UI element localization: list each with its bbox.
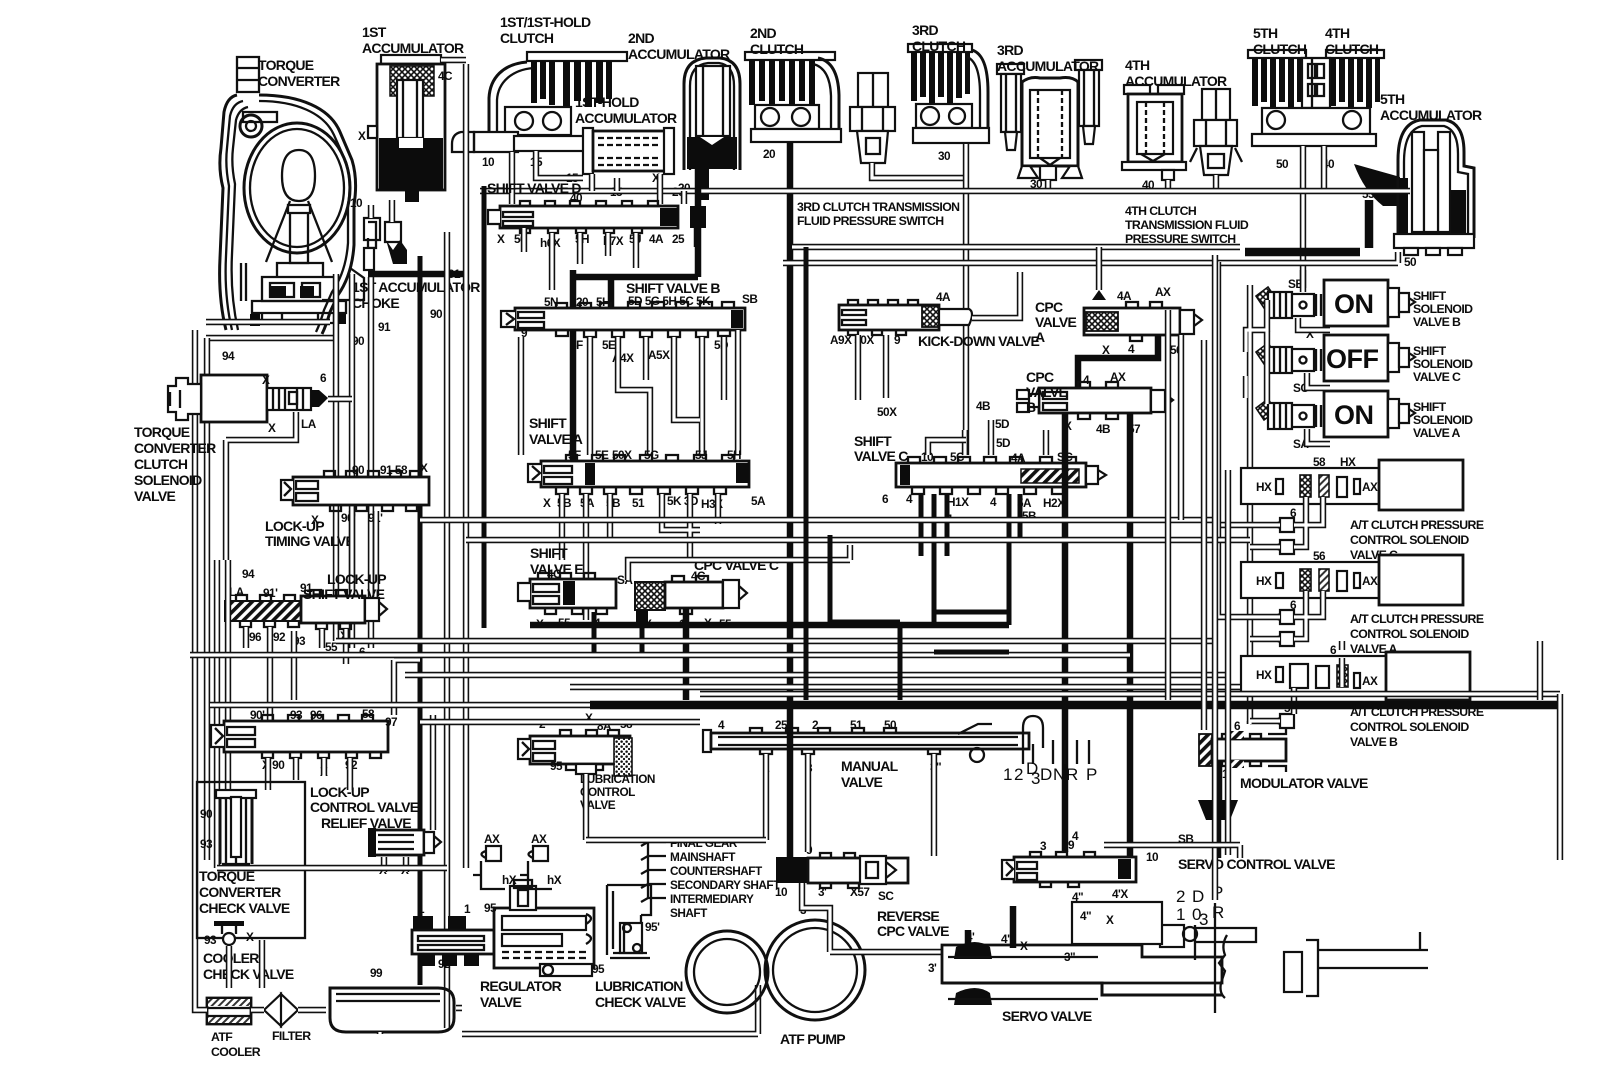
- a/t cpcsv B ports: [1276, 714, 1294, 728]
- svg-text:HX: HX: [1256, 668, 1272, 682]
- wire SB SC SA stems: [1298, 318, 1330, 444]
- wire lubrication control valve stem: [583, 774, 589, 840]
- wire 97 pipe: [394, 660, 420, 715]
- svg-text:CLUTCH: CLUTCH: [1325, 41, 1379, 57]
- wire LA elbow: [226, 412, 296, 560]
- svg-text:1ST/1ST-HOLD: 1ST/1ST-HOLD: [500, 14, 591, 30]
- svg-text:5E: 5E: [602, 338, 616, 352]
- atf cooler: [207, 998, 251, 1024]
- regulator valve: [412, 880, 594, 976]
- wire servo drops: [968, 906, 1013, 948]
- svg-text:5F: 5F: [570, 338, 583, 352]
- wire cpcsv C links: [1218, 497, 1323, 547]
- svg-text:AX: AX: [1110, 370, 1126, 384]
- svg-text:H1X: H1X: [947, 495, 969, 509]
- svg-text:50: 50: [1404, 255, 1417, 269]
- svg-text:96: 96: [310, 708, 323, 722]
- svg-text:CHECK VALVE: CHECK VALVE: [203, 966, 294, 982]
- svg-text:CONVERTER: CONVERTER: [134, 440, 216, 456]
- svg-text:ACCUMULATOR: ACCUMULATOR: [575, 110, 677, 126]
- svg-text:95: 95: [484, 901, 497, 915]
- svg-text:CLUTCH: CLUTCH: [912, 38, 966, 54]
- svg-text:6: 6: [882, 492, 889, 506]
- svg-text:50: 50: [884, 718, 897, 732]
- svg-text:CONVERTER: CONVERTER: [199, 884, 281, 900]
- svg-text:20: 20: [576, 295, 589, 309]
- svg-text:51: 51: [850, 718, 863, 732]
- svg-text:CHECK VALVE: CHECK VALVE: [199, 900, 290, 916]
- svg-text:MAINSHAFT: MAINSHAFT: [670, 850, 736, 864]
- wire control valve drops: [268, 758, 350, 790]
- wire cpc A arrow feed: [1096, 247, 1102, 290]
- svg-text:CONVERTER: CONVERTER: [258, 73, 340, 89]
- svg-text:10: 10: [350, 196, 363, 210]
- svg-text:SHIFT: SHIFT: [1413, 289, 1447, 303]
- shift valve A: [528, 455, 749, 494]
- svg-text:X: X: [246, 930, 254, 944]
- a/t cpcsv C ports: [1276, 518, 1294, 532]
- svg-text:50: 50: [1276, 157, 1289, 171]
- svg-text:99: 99: [370, 966, 383, 980]
- wire long horizontal y520: [420, 517, 1218, 523]
- wire cpc C stem thick: [683, 608, 690, 700]
- wire relief valve riser: [384, 715, 433, 872]
- svg-text:VALVE A: VALVE A: [529, 431, 583, 447]
- svg-text:REVERSE: REVERSE: [877, 908, 939, 924]
- frame box around check valve: [197, 782, 305, 938]
- svg-text:CONTROL SOLENOID: CONTROL SOLENOID: [1350, 627, 1469, 641]
- 3rd clutch pressure switch: [850, 73, 895, 163]
- svg-text:94: 94: [222, 349, 235, 363]
- svg-text:97: 97: [385, 715, 398, 729]
- svg-text:1: 1: [418, 902, 425, 916]
- svg-text:INTERMEDIARY: INTERMEDIARY: [670, 892, 754, 906]
- wire 4A elbow from valve D to kick-down: [694, 228, 701, 247]
- svg-text:MODULATOR VALVE: MODULATOR VALVE: [1240, 775, 1368, 791]
- svg-text:TIMING VALVE: TIMING VALVE: [265, 533, 354, 549]
- wire valve D port drops: [524, 228, 636, 290]
- svg-text:30: 30: [938, 149, 951, 163]
- wire y720: [420, 719, 700, 725]
- wire 2nd clutch thick extension: [787, 716, 794, 857]
- svg-text:5E: 5E: [595, 448, 609, 462]
- svg-text:OFF: OFF: [1326, 344, 1379, 374]
- svg-text:AX: AX: [531, 832, 547, 846]
- svg-text:ACCUMULATOR: ACCUMULATOR: [1380, 107, 1482, 123]
- a/t cpcsv A ports: [1276, 610, 1294, 624]
- 1st/1st-hold clutch: [452, 52, 627, 152]
- svg-text:SHIFT VALVE D: SHIFT VALVE D: [487, 180, 581, 196]
- wire long horizontal y687: [570, 684, 1240, 690]
- a/t clutch pressure control solenoid valve B: [1241, 652, 1470, 700]
- svg-text:4TH: 4TH: [1325, 25, 1350, 41]
- shift solenoid valve B assembly: [1256, 280, 1415, 326]
- svg-text:ACCUMULATOR: ACCUMULATOR: [997, 58, 1099, 74]
- svg-text:TORQUE: TORQUE: [258, 57, 314, 73]
- svg-text:3": 3": [1064, 950, 1075, 964]
- wire lubrication link: [586, 830, 808, 852]
- svg-text:4: 4: [1128, 342, 1135, 356]
- svg-text:AX: AX: [1362, 480, 1378, 494]
- svg-text:5H: 5H: [596, 295, 610, 309]
- wire 40 from 4th clutch: [1321, 146, 1327, 191]
- modulator valve: [1198, 728, 1286, 858]
- svg-text:X: X: [1020, 939, 1028, 953]
- svg-text:VALVE: VALVE: [480, 994, 521, 1010]
- svg-text:X: X: [358, 129, 366, 143]
- wire 4th accumulator stem: [1165, 180, 1171, 191]
- svg-text:CPC VALVE: CPC VALVE: [877, 923, 949, 939]
- svg-text:CPC: CPC: [1026, 369, 1054, 385]
- svg-text:20: 20: [763, 147, 776, 161]
- svg-text:5D: 5D: [996, 436, 1011, 450]
- svg-text:D: D: [1040, 765, 1052, 784]
- wire pipe x336 x352 from choke area down: [336, 274, 352, 648]
- svg-text:94: 94: [242, 567, 255, 581]
- wire long feed pipe y191: [480, 188, 1410, 194]
- svg-text:LOCK-UP: LOCK-UP: [310, 784, 369, 800]
- svg-text:2: 2: [1014, 765, 1023, 784]
- servo valve upper chamber: [1072, 902, 1162, 944]
- wire 1st accumulator top to x466: [441, 57, 466, 63]
- svg-text:LUBRICATION: LUBRICATION: [580, 772, 655, 786]
- svg-text:LUBRICATION: LUBRICATION: [595, 978, 683, 994]
- cpc valve B: [1017, 382, 1173, 419]
- svg-text:SHIFT: SHIFT: [1413, 344, 1447, 358]
- torque converter clutch solenoid valve: [168, 375, 328, 422]
- lubrication control valve: [518, 730, 632, 776]
- svg-text:VALVE B: VALVE B: [1413, 315, 1461, 329]
- svg-text:A5X: A5X: [648, 348, 670, 362]
- wire shift valve drops: [246, 627, 346, 720]
- svg-text:50X: 50X: [612, 448, 632, 462]
- shift solenoid valve C assembly: [1256, 335, 1415, 381]
- svg-text:TORQUE: TORQUE: [134, 424, 190, 440]
- svg-text:SHAFT: SHAFT: [670, 906, 708, 920]
- wire 50 from 5th clutch: [1300, 146, 1306, 292]
- svg-text:MANUAL: MANUAL: [841, 758, 899, 774]
- svg-text:6: 6: [1330, 643, 1337, 657]
- svg-text:1ST: 1ST: [362, 24, 387, 40]
- lock-up control valve: [211, 715, 388, 758]
- shift valve B: [501, 302, 745, 337]
- wire 57 thick: [1127, 413, 1134, 856]
- cooler check valve: [214, 921, 244, 945]
- svg-text:91': 91': [263, 586, 278, 600]
- 5th clutch: [1248, 50, 1306, 108]
- svg-text:10: 10: [482, 155, 495, 169]
- svg-text:10: 10: [775, 885, 788, 899]
- svg-text:CONTROL VALVE: CONTROL VALVE: [310, 799, 419, 815]
- svg-text:95: 95: [592, 962, 605, 976]
- svg-text:4: 4: [718, 718, 725, 732]
- svg-text:2ND: 2ND: [750, 25, 776, 41]
- wire pipe y247: [792, 244, 1240, 250]
- svg-text:LA: LA: [229, 585, 245, 599]
- wire thick x830 elbow: [830, 535, 900, 700]
- svg-text:PRESSURE SWITCH: PRESSURE SWITCH: [1125, 232, 1236, 246]
- svg-text:2ND: 2ND: [628, 30, 654, 46]
- svg-text:N: N: [1053, 765, 1065, 784]
- wire 15 acc port down: [592, 174, 617, 191]
- wire valve C top links: [965, 420, 1046, 455]
- wire long horizontal y648: [190, 652, 1130, 658]
- svg-text:6: 6: [1290, 506, 1297, 520]
- svg-text:91: 91: [378, 320, 391, 334]
- svg-text:R: R: [1212, 903, 1224, 922]
- svg-text:AX: AX: [1362, 674, 1378, 688]
- wire servo control valve feeds: [1104, 845, 1240, 858]
- wire thick x806: [804, 247, 809, 700]
- selector vertical lines: [1195, 903, 1215, 1013]
- svg-text:CONTROL SOLENOID: CONTROL SOLENOID: [1350, 533, 1469, 547]
- svg-text:6: 6: [1234, 719, 1241, 733]
- svg-text:3: 3: [1040, 839, 1047, 853]
- svg-text:1: 1: [464, 902, 471, 916]
- svg-text:CPC: CPC: [1035, 299, 1063, 315]
- svg-text:ACCUMULATOR: ACCUMULATOR: [1125, 73, 1227, 89]
- svg-text:4TH: 4TH: [1125, 57, 1150, 73]
- svg-text:TRANSMISSION FLUID: TRANSMISSION FLUID: [1125, 218, 1249, 232]
- svg-text:KICK-DOWN VALVE: KICK-DOWN VALVE: [918, 333, 1040, 349]
- 4th clutch pressure switch: [1190, 89, 1242, 175]
- svg-text:A/T CLUTCH PRESSURE: A/T CLUTCH PRESSURE: [1350, 612, 1484, 626]
- svg-text:5D: 5D: [995, 417, 1010, 431]
- wire left edge long pipes: [195, 330, 207, 940]
- svg-text:95': 95': [645, 920, 660, 934]
- svg-text:VALVE: VALVE: [1026, 384, 1067, 400]
- wire 3rd accumulator stem: [1045, 180, 1051, 191]
- servo control valve: [1002, 852, 1136, 887]
- relief valve: [368, 828, 441, 857]
- svg-text:ON: ON: [1334, 289, 1374, 319]
- svg-text:4C: 4C: [547, 567, 562, 581]
- svg-text:AX: AX: [1362, 574, 1378, 588]
- svg-text:5TH: 5TH: [1380, 91, 1405, 107]
- wire pipe x447: [444, 232, 450, 1028]
- wire 4 thick x1065: [1062, 413, 1069, 852]
- svg-text:93: 93: [204, 933, 217, 947]
- svg-text:2: 2: [812, 718, 819, 732]
- wire 15 drop: [536, 151, 583, 178]
- shift valve C: [896, 457, 1106, 494]
- svg-text:10: 10: [1146, 850, 1159, 864]
- wire timing valve drops: [352, 511, 376, 596]
- svg-text:3': 3': [928, 961, 937, 975]
- wire choke feeds: [371, 200, 392, 648]
- svg-text:CHECK VALVE: CHECK VALVE: [595, 994, 686, 1010]
- svg-text:P: P: [1086, 765, 1097, 784]
- svg-text:SHIFT: SHIFT: [530, 545, 568, 561]
- wire vertical x466 from 1st accumulator top: [463, 64, 469, 868]
- svg-text:A/T CLUTCH PRESSURE: A/T CLUTCH PRESSURE: [1350, 518, 1484, 532]
- svg-text:SHIFT: SHIFT: [1413, 400, 1447, 414]
- svg-text:5TH: 5TH: [1253, 25, 1278, 41]
- svg-text:5N: 5N: [544, 295, 558, 309]
- wire long horizontal y694: [700, 691, 1560, 697]
- svg-text:AX: AX: [484, 832, 500, 846]
- wire 56 pipe: [1178, 335, 1184, 470]
- svg-text:COOLER: COOLER: [211, 1045, 261, 1059]
- wire long horizontal y641: [336, 638, 1218, 644]
- kick-down valve: [839, 300, 972, 335]
- svg-text:91 58: 91 58: [380, 463, 408, 477]
- svg-text:FILTER: FILTER: [272, 1029, 311, 1043]
- svg-text:90: 90: [352, 463, 365, 477]
- 3rd accumulator: [997, 60, 1102, 180]
- svg-text:5H: 5H: [727, 448, 741, 462]
- wire thick bar y625: [530, 622, 1009, 629]
- svg-text:2: 2: [1176, 887, 1185, 906]
- svg-text:4B: 4B: [1096, 422, 1110, 436]
- svg-text:VALVE: VALVE: [841, 774, 882, 790]
- svg-text:SOLENOID: SOLENOID: [1413, 302, 1473, 316]
- svg-text:4C: 4C: [691, 569, 706, 583]
- svg-text:90: 90: [430, 307, 443, 321]
- svg-text:hX: hX: [502, 873, 517, 887]
- svg-text:1: 1: [1176, 905, 1185, 924]
- wire pan riser: [217, 868, 447, 988]
- svg-text:5G: 5G: [644, 448, 659, 462]
- svg-text:VALVE C: VALVE C: [854, 448, 908, 464]
- svg-text:SOLENOID: SOLENOID: [1413, 413, 1473, 427]
- lubrication check valve: [607, 885, 651, 958]
- wire shift solenoid feeds: [1218, 262, 1303, 724]
- svg-text:91: 91: [300, 581, 313, 595]
- svg-text:HX: HX: [1256, 574, 1272, 588]
- svg-text:SC: SC: [878, 889, 894, 903]
- svg-text:25: 25: [672, 232, 685, 246]
- svg-text:4'X: 4'X: [1112, 887, 1128, 901]
- svg-text:96: 96: [249, 630, 262, 644]
- svg-text:5D 5G 5H 5C 5K: 5D 5G 5H 5C 5K: [628, 294, 711, 308]
- 2nd clutch: [745, 52, 841, 142]
- svg-text:5J: 5J: [695, 448, 707, 462]
- wire kick-down drops: [858, 335, 886, 400]
- svg-text:51: 51: [632, 496, 645, 510]
- wire long horizontal y540: [466, 537, 1250, 543]
- a/t clutch pressure control solenoid valve A: [1241, 555, 1463, 605]
- svg-text:ATF: ATF: [211, 1030, 233, 1044]
- wire trunk thick y705: [590, 701, 1560, 710]
- svg-text:COUNTERSHAFT: COUNTERSHAFT: [670, 864, 763, 878]
- svg-text:CONTROL SOLENOID: CONTROL SOLENOID: [1350, 720, 1469, 734]
- 1st accumulator choke: [364, 218, 407, 270]
- svg-text:93: 93: [290, 708, 303, 722]
- svg-text:SERVO CONTROL VALVE: SERVO CONTROL VALVE: [1178, 856, 1335, 872]
- svg-text:X: X: [420, 461, 428, 475]
- wire kick-down to cpc region: [972, 272, 1020, 318]
- svg-text:3RD: 3RD: [997, 42, 1023, 58]
- wire 2nd accumulator thick elbow: [573, 168, 698, 462]
- wire valve A port drops: [562, 494, 718, 620]
- svg-text:SECONDARY SHAFT: SECONDARY SHAFT: [670, 878, 781, 892]
- svg-text:3': 3': [818, 885, 827, 899]
- svg-text:CLUTCH: CLUTCH: [500, 30, 554, 46]
- svg-text:90': 90': [250, 708, 265, 722]
- wire valve C thick drops: [921, 494, 1020, 625]
- atf pump: [686, 920, 865, 1020]
- shift valve D: [488, 201, 706, 233]
- svg-text:A: A: [1035, 329, 1045, 345]
- 5th accumulator: [1245, 120, 1474, 255]
- wire 30 vertical: [963, 144, 969, 455]
- wire thick x420: [418, 256, 423, 985]
- svg-text:3RD CLUTCH TRANSMISSION: 3RD CLUTCH TRANSMISSION: [797, 200, 960, 214]
- svg-text:A9X 50X: A9X 50X: [830, 333, 874, 347]
- wire cpc A thick stem: [1078, 335, 1158, 388]
- svg-text:92: 92: [438, 957, 451, 971]
- lock-up timing valve: [281, 471, 429, 511]
- a/t clutch pressure control solenoid valve C: [1241, 460, 1463, 510]
- svg-text:SHIFT: SHIFT: [529, 415, 567, 431]
- svg-text:56: 56: [1313, 549, 1326, 563]
- svg-text:4: 4: [990, 495, 997, 509]
- wire thick x484: [482, 186, 487, 628]
- svg-text:50X: 50X: [877, 405, 897, 419]
- 4th accumulator: [1122, 85, 1186, 180]
- svg-text:4: 4: [1083, 373, 1090, 387]
- 2nd accumulator: [684, 58, 740, 200]
- shift solenoid valve A assembly: [1256, 391, 1415, 437]
- oil pan: [330, 988, 454, 1032]
- lock-up shift valve: [225, 590, 387, 629]
- manual valve: [703, 716, 1089, 764]
- svg-text:92: 92: [273, 630, 286, 644]
- ax hx callouts above regulator: [473, 846, 552, 889]
- svg-text:6: 6: [1290, 598, 1297, 612]
- svg-text:3: 3: [1199, 910, 1208, 929]
- 1st-hold accumulator: [583, 128, 674, 174]
- torque converter check valve: [216, 790, 256, 864]
- wire pipe y263 5th accumulator drain: [783, 252, 1398, 263]
- svg-text:X: X: [543, 496, 551, 510]
- svg-text:X: X: [1106, 913, 1114, 927]
- svg-text:hX: hX: [547, 873, 562, 887]
- svg-text:4A: 4A: [936, 290, 951, 304]
- svg-text:LA: LA: [301, 417, 317, 431]
- filter: [264, 994, 298, 1026]
- svg-text:LOCK-UP: LOCK-UP: [327, 571, 386, 587]
- svg-text:X: X: [497, 232, 505, 246]
- svg-text:58: 58: [362, 707, 375, 721]
- 5th/4th clutch center hub: [1252, 58, 1376, 146]
- 4th clutch: [1326, 50, 1384, 108]
- svg-text:CLUTCH: CLUTCH: [1253, 41, 1307, 57]
- svg-text:4TH CLUTCH: 4TH CLUTCH: [1125, 204, 1197, 218]
- svg-text:VALVE: VALVE: [1035, 314, 1076, 330]
- svg-text:4C: 4C: [438, 69, 453, 83]
- svg-text:4A: 4A: [1117, 289, 1132, 303]
- svg-text:3RD: 3RD: [912, 22, 938, 38]
- svg-text:REGULATOR: REGULATOR: [480, 978, 562, 994]
- wire shift valve E drops thick: [594, 612, 642, 655]
- wire solenoid to x336: [328, 396, 352, 402]
- svg-text:ACCUMULATOR: ACCUMULATOR: [362, 40, 464, 56]
- cpc valve C: [635, 576, 747, 626]
- shift valve E: [518, 573, 616, 614]
- svg-text:ON: ON: [1334, 400, 1374, 430]
- svg-text:SB: SB: [742, 292, 757, 306]
- wire right risers: [1168, 255, 1560, 900]
- svg-text:VALVE C: VALVE C: [1413, 370, 1461, 384]
- wire long horizontal y675: [405, 672, 1228, 678]
- svg-text:VALVE: VALVE: [134, 488, 175, 504]
- wire cpcsv B links: [1250, 641, 1342, 724]
- svg-text:VALVE A: VALVE A: [1413, 426, 1461, 440]
- svg-text:SHIFT VALVE: SHIFT VALVE: [303, 586, 385, 602]
- svg-text:90: 90: [200, 807, 213, 821]
